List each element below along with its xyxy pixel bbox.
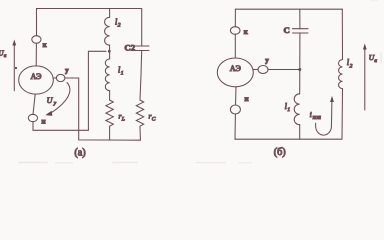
svg-text:а: а: [374, 58, 377, 64]
wire: rL to bottom rail (a): [109, 128, 111, 140]
wire: tank branch top (a): [109, 9, 111, 18]
svg-text:1: 1: [287, 107, 290, 113]
terminal y (a): [56, 74, 65, 81]
wire: k vertical upper (b): [234, 9, 236, 27]
wire: C branch upper (b): [299, 9, 301, 29]
wire: L1 to rL (a): [109, 91, 111, 100]
wire: k circle to AE top (b): [234, 34, 236, 58]
svg-text:а: а: [4, 53, 7, 59]
inductor L1 (a): [105, 59, 109, 91]
terminal k (b): [230, 27, 240, 35]
capacitor C (b): [293, 28, 309, 30]
wire: C2 to rC (a): [140, 51, 142, 101]
svg-text:C2: C2: [124, 43, 135, 53]
wire: L1 to bottom rail (b): [299, 125, 301, 140]
arrow Uy arc (a): [52, 83, 70, 113]
wire: AE bottom to i terminal (a): [33, 94, 35, 114]
wire: y terminal to C-bottom junction (b): [268, 69, 300, 71]
paper background: [0, 0, 384, 165]
scan smudges: [0, 0, 382, 164]
svg-text:АЭ: АЭ: [230, 64, 241, 73]
node: phasor dot on Ua line (a): [15, 67, 17, 69]
svg-text:у: у: [65, 67, 69, 75]
wire: rC to bottom rail (a): [139, 128, 141, 140]
resistor rL (a): [106, 100, 113, 128]
svg-text:1: 1: [121, 70, 124, 76]
terminal i (b): [230, 105, 240, 114]
capacitor C2 (a): [135, 45, 149, 47]
wire: AE right stub (b): [253, 69, 258, 71]
wire: L2 to bottom rail (b): [341, 89, 344, 140]
wire: k circle to AE top (a): [35, 43, 37, 66]
wire: AE right stub to y terminal (a): [53, 77, 56, 79]
inductor L1 (b): [294, 94, 300, 125]
wire: y terminal right and down (a): [65, 78, 140, 140]
wire: k-terminal vertical upper (a): [36, 9, 38, 36]
inductor L2 (b): [339, 60, 343, 89]
active element AE (b): [217, 58, 253, 87]
active element AE (a): [19, 66, 54, 94]
svg-text:(б): (б): [274, 147, 286, 158]
resistor rC (a): [136, 100, 143, 128]
svg-text:и: и: [244, 95, 248, 103]
svg-text:L: L: [121, 117, 125, 123]
wire: top rail (a): [37, 8, 142, 10]
svg-text:(а): (а): [74, 148, 85, 159]
wire: L2 to tap (a): [109, 45, 111, 59]
inductor L2 (a): [105, 17, 110, 45]
svg-text:C: C: [152, 117, 156, 123]
wire: AE bottom to i terminal (b): [235, 87, 238, 105]
svg-text:C: C: [284, 25, 290, 35]
wire: bottom rail (b): [235, 138, 342, 140]
svg-text:2: 2: [118, 23, 121, 29]
terminal k (a): [32, 36, 41, 44]
svg-text:i: i: [310, 110, 312, 119]
svg-text:АЭ: АЭ: [31, 72, 42, 81]
svg-text:у: у: [53, 101, 57, 107]
svg-text:кон: кон: [313, 115, 321, 121]
node: tap junction dot (a): [108, 50, 111, 53]
terminal y (b): [258, 66, 268, 74]
wire: C bottom to junction to L1 (b): [299, 33, 301, 94]
arrow i_kon loop (b): [316, 102, 332, 136]
node: junction dot below C (b): [298, 68, 301, 71]
svg-text:и: и: [41, 118, 45, 126]
wire: i terminal down, right, up to tap (a): [33, 51, 106, 130]
wire: i terminal down to bottom rail (b): [234, 114, 236, 139]
arrow Ua (b): [364, 48, 366, 110]
svg-text:у: у: [265, 57, 269, 65]
arrow Ua (a): [13, 44, 15, 91]
wire: C2 branch upper (a): [141, 9, 143, 47]
wire: top rail (b): [235, 8, 342, 10]
terminal i (a): [28, 114, 37, 121]
svg-text:2: 2: [350, 63, 353, 69]
wire: L2 branch top (b): [341, 9, 343, 59]
